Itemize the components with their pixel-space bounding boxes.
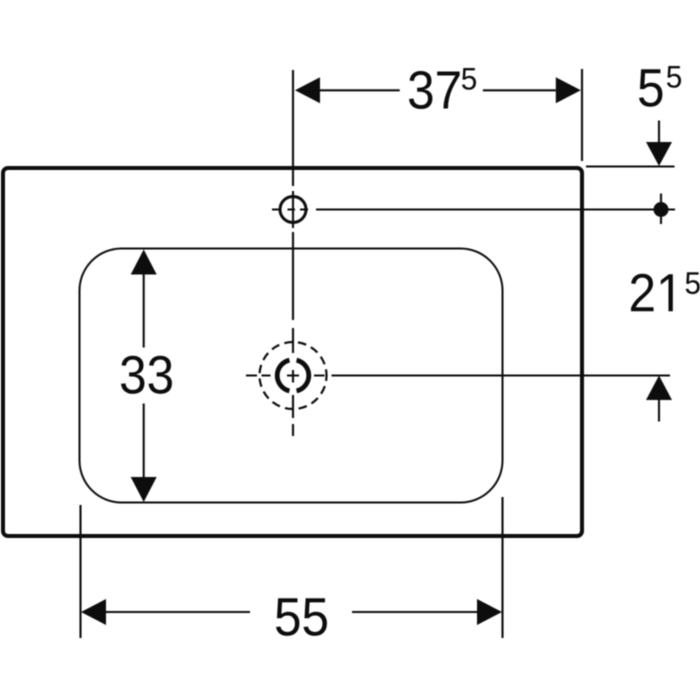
basin inner bowl outline [80, 249, 503, 503]
shaft of 5.5 arrow [658, 121, 660, 143]
arrowhead 33 down [131, 477, 157, 502]
drain dashed circle [260, 342, 327, 409]
extension line right edge for 37.5 [581, 69, 583, 161]
arrowhead 37.5 left [295, 77, 320, 103]
label 37.5 [409, 68, 476, 109]
extension line right for 55 [501, 497, 503, 638]
arrowhead 5.5 down [646, 142, 672, 166]
faucet hole circle [280, 197, 306, 223]
dimension line 55 [106, 611, 477, 613]
drain horizontal centerline [246, 374, 670, 376]
dimension line 37.5 [320, 89, 556, 91]
faucet hole horizontal centerline [272, 208, 675, 210]
extension line left for 55 [79, 505, 81, 638]
label 33 [121, 356, 172, 394]
shaft of 21.5 arrow [658, 400, 660, 422]
drain thick ring right arc [297, 360, 309, 391]
arrowhead 21.5 up [646, 376, 672, 401]
extension line top edge for 5.5 [586, 165, 675, 167]
arrowhead 55 right [477, 599, 502, 625]
label 55 [276, 598, 327, 636]
drain thick ring left arc [277, 360, 289, 391]
dimension origin dot [654, 202, 669, 217]
arrowhead 55 left [81, 599, 106, 625]
arrowhead 33 up [131, 250, 157, 275]
dimension origin dot ticks [660, 194, 662, 225]
label 21.5 [631, 272, 700, 311]
washbasin outer outline [3, 168, 582, 536]
faucet/drain vertical centerline [292, 70, 294, 436]
dimension line 33 [143, 275, 145, 478]
label 5.5 [639, 66, 681, 107]
arrowhead 37.5 right [556, 77, 581, 103]
